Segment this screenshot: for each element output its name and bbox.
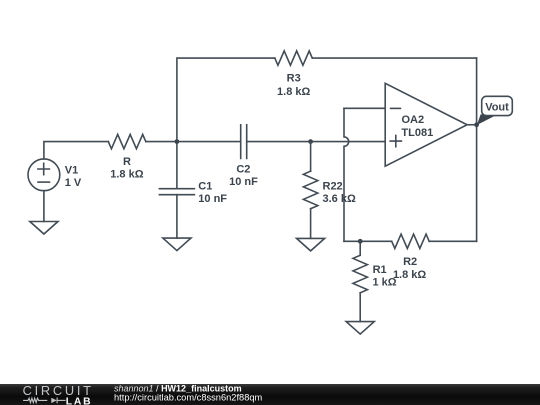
wire inverting feedback vertical with hop over plus wire — [344, 108, 349, 241]
svg-text:1.8 kΩ: 1.8 kΩ — [393, 269, 426, 281]
resistor R — [108, 134, 146, 148]
ground under R22 — [297, 238, 325, 251]
footer bar — [0, 384, 540, 405]
label R22 value — [323, 181, 356, 206]
wire right vertical (output net) — [476, 58, 478, 241]
node C junction dot — [358, 239, 363, 244]
svg-text:TL081: TL081 — [401, 127, 433, 139]
svg-text:R2: R2 — [403, 256, 417, 268]
ground under V1 — [30, 222, 58, 235]
svg-text:1 V: 1 V — [65, 177, 82, 189]
svg-text:1.8 kΩ: 1.8 kΩ — [110, 169, 143, 181]
wire top-left vertical and top wire to R3 — [177, 58, 275, 189]
flag Vout — [477, 96, 512, 125]
svg-text:1.8 kΩ: 1.8 kΩ — [277, 86, 310, 98]
node Vout junction dot — [474, 122, 479, 127]
label R2 value — [393, 256, 426, 281]
label R value — [110, 156, 143, 181]
label C2 value — [229, 164, 258, 188]
svg-text:Vout: Vout — [485, 102, 509, 114]
svg-text:V1: V1 — [65, 164, 78, 176]
resistor R22 — [303, 142, 317, 239]
op-amp OA2 — [385, 83, 467, 166]
voltage source V1 — [28, 159, 60, 191]
svg-text:C2: C2 — [236, 164, 250, 176]
label R3 value — [277, 72, 310, 98]
svg-text:R: R — [123, 156, 131, 168]
label C1 value — [198, 181, 227, 206]
wire minus input — [344, 107, 385, 109]
svg-text:3.6 kΩ: 3.6 kΩ — [323, 193, 356, 205]
ground under C1 — [163, 238, 191, 251]
capacitor C2 — [241, 125, 247, 159]
svg-text:10 nF: 10 nF — [229, 176, 258, 188]
node B junction dot — [308, 139, 313, 144]
label OA2 TL081 — [401, 114, 433, 139]
svg-text:OA2: OA2 — [402, 114, 425, 126]
svg-text:R22: R22 — [323, 181, 343, 193]
svg-text:10 nF: 10 nF — [198, 193, 227, 205]
wire R3 to top-right corner — [312, 57, 476, 59]
resistor R3 — [275, 51, 313, 65]
wire bottom feedback net — [344, 240, 477, 242]
svg-text:LAB: LAB — [66, 396, 93, 405]
svg-text:R3: R3 — [287, 72, 301, 84]
node A junction dot — [175, 139, 180, 144]
resistor R1 — [353, 241, 367, 321]
wire C2 to node B and op-amp plus input — [247, 141, 386, 143]
label R1 value — [373, 264, 397, 289]
wire V1 bottom to ground — [43, 191, 45, 222]
wire C1 to ground — [176, 195, 178, 238]
wire V1 top to resistor R — [44, 142, 108, 159]
logo resistor-diode glyph — [23, 398, 66, 404]
ground under R1 — [346, 322, 374, 335]
resistor R2 — [392, 234, 430, 248]
wire R to C2 left plate — [146, 141, 241, 143]
svg-text:C1: C1 — [198, 181, 212, 193]
svg-text:R1: R1 — [373, 264, 387, 276]
svg-text:http://circuitlab.com/c8ssn6n2: http://circuitlab.com/c8ssn6n2f88qm — [114, 392, 263, 402]
capacitor C1 — [159, 189, 194, 195]
label V1 value — [65, 164, 82, 189]
wire op-amp output lead — [467, 124, 477, 126]
